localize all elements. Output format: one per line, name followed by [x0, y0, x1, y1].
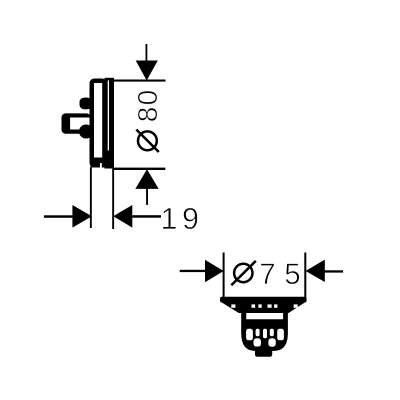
- dim 19 left tail: [44, 215, 73, 218]
- bracket bottom bump: [79, 125, 93, 139]
- escutcheon side view: gap line in strip: [108, 81, 109, 151]
- svg-text:80: 80: [132, 89, 163, 123]
- flange hole 6: [294, 304, 298, 307]
- basket slit 2: [256, 329, 260, 336]
- bracket top bump: [80, 98, 93, 110]
- Ø80 arrow down: [136, 61, 158, 81]
- label Ø80 diameter symbol: [136, 130, 159, 153]
- extension line left below plate: [90, 168, 92, 229]
- strainer flange bevel: [221, 302, 306, 313]
- Ø80 arrow tail top: [146, 44, 148, 62]
- basket foot: [255, 347, 272, 357]
- dim line Ø80 bottom: [114, 168, 165, 170]
- dim line Ø80 top: [112, 80, 166, 82]
- flange hole 4: [268, 304, 272, 307]
- dim 19 right arrow: [113, 205, 132, 228]
- Ø75 extension line right: [304, 253, 306, 303]
- basket lower window right: [268, 338, 275, 347]
- strainer basket body: [241, 313, 288, 351]
- strainer flange top bar: [220, 297, 307, 303]
- Ø75 extension line left: [223, 253, 225, 303]
- escutcheon plate outline: [92, 81, 105, 166]
- plate bottom notch: [100, 163, 102, 168]
- flange hole 5: [274, 304, 277, 307]
- bracket C-clamp: [62, 113, 91, 133]
- basket lower window left: [254, 338, 262, 347]
- svg-text:19: 19: [161, 202, 204, 236]
- basket slit 5: [277, 329, 284, 341]
- Ø75 left tail: [180, 270, 206, 272]
- Ø75 left arrow: [205, 260, 224, 282]
- flange hole 3: [258, 304, 261, 307]
- basket slit 3: [263, 329, 267, 339]
- bracket slot: [70, 118, 90, 130]
- Ø80 arrow tail bottom: [146, 189, 148, 205]
- flange hole 1: [231, 304, 235, 307]
- Ø80 arrow up: [135, 169, 158, 189]
- extension line right below plate: [112, 168, 114, 230]
- basket slit 1: [246, 329, 253, 341]
- dim 19 left arrow: [72, 205, 92, 228]
- basket neck white band: [246, 313, 283, 319]
- dim 19 right tail: [132, 215, 161, 218]
- escutcheon side view: back strip: [105, 78, 115, 169]
- svg-text:75: 75: [259, 258, 309, 291]
- label Ø75 diameter symbol: [231, 261, 256, 285]
- Ø75 right tail: [325, 270, 344, 272]
- basket slit 4: [270, 329, 274, 336]
- flange hole 2: [252, 304, 256, 307]
- plate bottom feet: [91, 158, 114, 168]
- Ø75 right arrow: [306, 260, 325, 282]
